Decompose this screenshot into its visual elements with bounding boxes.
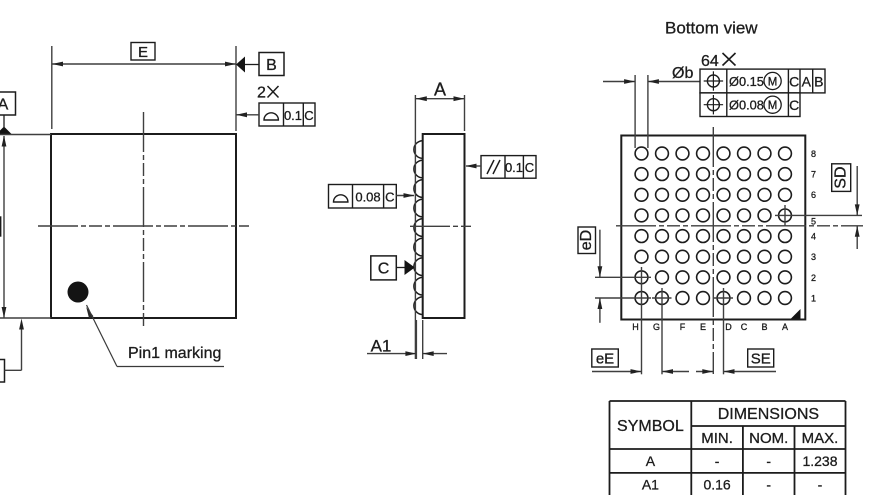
svg-text:B: B: [814, 74, 823, 90]
SD label box (rotated): [832, 164, 851, 192]
pin1 marking dot: [68, 282, 89, 303]
position tolerance frame row1: pos 0.15 M C A B: [700, 69, 825, 93]
svg-text:C: C: [385, 190, 394, 205]
datum C label box: [371, 256, 397, 280]
svg-text:6: 6: [811, 190, 816, 200]
svg-text:M: M: [768, 76, 778, 88]
dimension eE line with outside arrows: [592, 369, 689, 374]
arrow from coplanarity frame to ball plane: [396, 193, 414, 198]
dimension SE line with outside arrows: [696, 369, 776, 374]
svg-text:C: C: [741, 322, 748, 332]
svg-text:C: C: [789, 74, 799, 90]
dimension A1 line with outside arrows: [367, 351, 447, 356]
svg-text:A: A: [802, 74, 812, 90]
side view package outline: [423, 134, 465, 318]
front view vertical centerline: [143, 112, 145, 326]
table header SYMBOL: [617, 418, 684, 435]
ball H1 crosshair: [595, 288, 651, 374]
ball grid 8x8: [635, 147, 791, 304]
table header MIN NOM MAX: [701, 430, 838, 447]
svg-text:SE: SE: [751, 351, 771, 368]
left dimension D line with arrows: [2, 136, 7, 319]
dimension E extension lines: [52, 46, 236, 131]
dimension SD line with outside arrows: [855, 166, 860, 249]
table borders: [610, 401, 846, 495]
column labels H..A: [632, 322, 788, 332]
ball seating plane extension line: [414, 95, 416, 359]
dimension A line with arrows: [415, 96, 464, 101]
pin A1 corner triangle: [791, 309, 801, 319]
dimension eD line with outside arrows: [598, 230, 603, 323]
front view horizontal centerline: [38, 225, 249, 227]
svg-text:0.1: 0.1: [505, 160, 523, 175]
dimension E line with arrows: [52, 62, 236, 67]
svg-text:G: G: [653, 322, 660, 332]
datum A label box (cut off at left edge): [0, 92, 16, 115]
svg-text:E: E: [138, 44, 148, 61]
dimension A right extension line: [464, 95, 466, 131]
ball A5 crosshair: [775, 205, 862, 226]
svg-text:NOM.: NOM.: [749, 430, 788, 447]
SE label box: [748, 349, 774, 368]
dimension A label: [434, 80, 446, 100]
profile tolerance frame 0.1 C: [259, 103, 315, 126]
svg-text:Bottom view: Bottom view: [665, 19, 758, 38]
svg-text:1: 1: [811, 294, 816, 304]
svg-text:A: A: [434, 80, 446, 100]
dimension Ob line with outside arrows: [603, 79, 700, 84]
svg-text:Øb: Øb: [672, 65, 693, 82]
svg-text:DIMENSIONS: DIMENSIONS: [718, 406, 819, 423]
row labels 8..1: [811, 149, 816, 304]
table header DIMENSIONS: [718, 406, 819, 423]
table row A: [646, 453, 838, 469]
bottom-left tolerance frame (cut off) with leader arrow: [0, 319, 24, 383]
dimension A1 label: [371, 337, 392, 356]
svg-text:MAX.: MAX.: [802, 430, 839, 447]
bottom view vertical centerline: [712, 127, 714, 374]
svg-text:4: 4: [811, 232, 816, 242]
svg-text:7: 7: [811, 170, 816, 180]
svg-text:3: 3: [811, 252, 816, 262]
bottom view title: [665, 19, 758, 38]
svg-text:F: F: [680, 322, 686, 332]
svg-text:eD: eD: [578, 230, 595, 250]
svg-text:Ø0.15: Ø0.15: [729, 74, 764, 89]
svg-text:C: C: [304, 108, 313, 123]
ball H2 crosshair: [595, 267, 651, 288]
svg-text:A: A: [0, 97, 9, 114]
coplanarity tolerance frame 0.08 C: [329, 185, 397, 209]
svg-text:A: A: [646, 453, 656, 469]
bottom view horizontal centerline: [616, 225, 863, 227]
eE label box: [592, 349, 619, 368]
svg-text:A: A: [782, 322, 788, 332]
svg-text:2: 2: [257, 85, 266, 102]
eD label box (rotated): [578, 227, 596, 254]
arrow from parallelism frame to package right edge: [466, 164, 482, 169]
side view horizontal centerline: [410, 225, 471, 227]
svg-text:SD: SD: [833, 166, 850, 188]
bottom view package outline: [621, 136, 805, 320]
svg-text:0.16: 0.16: [703, 477, 730, 493]
svg-text:0.1: 0.1: [284, 108, 302, 123]
table row A1: [642, 477, 823, 493]
svg-text:SYMBOL: SYMBOL: [617, 418, 684, 435]
dimension A1 extension lines: [416, 320, 422, 359]
arrow from 0.1C frame to right extension line: [236, 112, 259, 117]
svg-text:Pin1 marking: Pin1 marking: [128, 345, 221, 362]
2X count label: [257, 85, 279, 102]
bottom edge extension line to left: [0, 317, 51, 319]
svg-text:A1: A1: [642, 477, 659, 493]
ball D1 crosshair: [714, 288, 734, 374]
svg-text:B: B: [761, 322, 767, 332]
left dimension D label box (cut off): [0, 217, 1, 236]
svg-text:MIN.: MIN.: [701, 430, 733, 447]
dimension E label box: [131, 43, 155, 62]
datum B label box: [259, 53, 284, 76]
Ob label: [672, 65, 693, 82]
Pin1 marking text: [128, 345, 221, 362]
svg-text:-: -: [715, 453, 720, 469]
top edge extension line to left: [0, 134, 51, 136]
svg-text:64: 64: [701, 53, 719, 70]
svg-text:E: E: [700, 322, 706, 332]
svg-text:-: -: [766, 477, 771, 493]
svg-text:A1: A1: [371, 337, 392, 356]
svg-text:M: M: [768, 100, 778, 112]
svg-text:C: C: [525, 160, 534, 175]
svg-text:eE: eE: [596, 351, 614, 368]
position tolerance frame row2: pos 0.08 M C: [700, 93, 800, 117]
svg-text:5: 5: [811, 217, 816, 227]
dimension Ob extension lines (ball H8 tangents): [635, 75, 648, 148]
pin1 marking leader and arrow: [86, 305, 224, 367]
svg-text:8: 8: [811, 149, 816, 159]
svg-text:-: -: [766, 453, 771, 469]
svg-text:2: 2: [811, 273, 816, 283]
ball G1 crosshair: [652, 288, 672, 374]
64X count label: [701, 53, 736, 70]
svg-text:Ø0.08: Ø0.08: [729, 98, 764, 113]
datum A leader and filled triangle: [0, 115, 12, 135]
svg-text:H: H: [632, 322, 639, 332]
svg-text:C: C: [378, 261, 390, 278]
svg-text:D: D: [725, 322, 732, 332]
side view solder balls (9 semicircles): [414, 141, 423, 315]
datum B filled triangle: [236, 57, 259, 73]
front view package outline: [51, 134, 236, 318]
svg-text:1.238: 1.238: [802, 453, 837, 469]
datum C leader and filled triangle: [396, 260, 415, 275]
svg-text:0.08: 0.08: [355, 190, 380, 205]
svg-text:-: -: [818, 477, 823, 493]
parallelism tolerance frame 0.1 C: [481, 156, 536, 179]
svg-text:C: C: [789, 97, 799, 113]
svg-text:B: B: [266, 57, 277, 74]
